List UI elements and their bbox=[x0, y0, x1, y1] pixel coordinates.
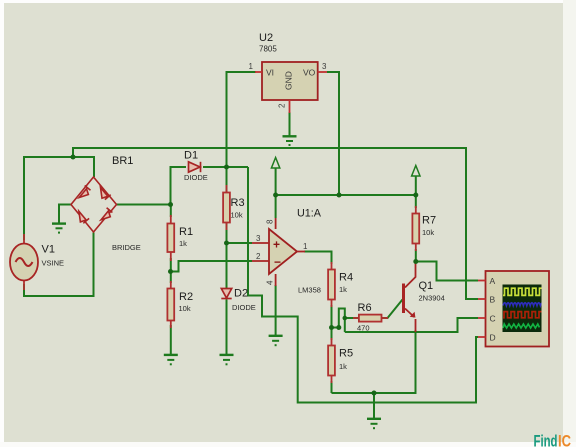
wire R2 leads bbox=[170, 272, 172, 355]
svg-text:1k: 1k bbox=[179, 239, 187, 248]
wire op-amp pin4 to ground bbox=[275, 285, 277, 336]
svg-text:C: C bbox=[490, 314, 496, 324]
svg-text:Q1: Q1 bbox=[419, 280, 434, 292]
diode D2 bbox=[221, 289, 231, 299]
ground (bridge) bbox=[52, 224, 66, 233]
resistor R7 bbox=[412, 206, 419, 251]
wire power arrow stem R7 bbox=[415, 176, 417, 195]
svg-text:R2: R2 bbox=[179, 291, 193, 303]
svg-text:R5: R5 bbox=[339, 348, 353, 360]
svg-text:4: 4 bbox=[266, 280, 275, 285]
node +5V op-amp bbox=[273, 193, 278, 198]
svg-text:VSINE: VSINE bbox=[42, 259, 65, 268]
svg-text:DIODE: DIODE bbox=[232, 303, 256, 312]
svg-text:LM358: LM358 bbox=[298, 286, 321, 295]
node V1/rail bbox=[71, 155, 76, 160]
wire op-amp pin3 bbox=[227, 242, 253, 244]
resistor R5 bbox=[328, 338, 335, 383]
svg-text:2: 2 bbox=[278, 103, 287, 108]
node R3/D2/pin3 bbox=[224, 241, 229, 246]
node +5V R7 bbox=[413, 193, 418, 198]
source V1 bbox=[10, 234, 38, 290]
power arrow (R7 supply) bbox=[412, 166, 420, 177]
svg-text:R4: R4 bbox=[339, 272, 353, 284]
node collector bbox=[413, 259, 418, 264]
svg-text:R6: R6 bbox=[358, 302, 372, 314]
transistor Q1 bbox=[402, 262, 416, 333]
svg-text:VO: VO bbox=[303, 68, 316, 78]
svg-text:D1: D1 bbox=[184, 150, 198, 162]
svg-text:10k: 10k bbox=[179, 304, 191, 313]
wire power arrow stem U1 bbox=[275, 166, 277, 195]
svg-text:2: 2 bbox=[256, 252, 261, 261]
wire op-amp pin2 from divider bbox=[171, 261, 253, 272]
wire D1 cathode to junction bbox=[203, 166, 248, 168]
svg-text:7805: 7805 bbox=[259, 45, 277, 54]
wire 7805 VI vertical bbox=[227, 72, 257, 193]
wire 7805 VO drop bbox=[327, 72, 339, 195]
svg-text:R7: R7 bbox=[422, 215, 436, 227]
svg-text:BR1: BR1 bbox=[112, 155, 133, 167]
wire D1 anode riser bbox=[171, 167, 187, 205]
power arrow (U1 supply) bbox=[271, 158, 279, 169]
svg-text:1k: 1k bbox=[339, 285, 347, 294]
wire +5V rail bbox=[276, 194, 416, 196]
wire 7805 GND pin bbox=[289, 112, 291, 136]
wire R3 bottom to D2 and ground bbox=[226, 223, 228, 355]
ground (R2) bbox=[164, 355, 178, 364]
wire jog up + top rail + drop to scope B bbox=[73, 148, 478, 299]
node R6 lead bbox=[343, 316, 348, 321]
scope screen bbox=[503, 285, 542, 333]
svg-text:VI: VI bbox=[266, 68, 274, 78]
svg-text:10k: 10k bbox=[422, 228, 434, 237]
wire bridge right output bbox=[117, 204, 171, 206]
resistor R4 bbox=[328, 262, 335, 307]
svg-text:D: D bbox=[490, 333, 496, 343]
svg-text:8: 8 bbox=[266, 219, 275, 224]
wire R7 bottom to collector node bbox=[415, 249, 417, 262]
svg-text:1: 1 bbox=[303, 242, 308, 251]
wire V1 bottom loop to bridge bottom bbox=[24, 233, 94, 297]
svg-text:B: B bbox=[490, 295, 496, 305]
resistor R6 bbox=[353, 315, 388, 322]
svg-text:DIODE: DIODE bbox=[184, 173, 208, 182]
svg-text:+: + bbox=[273, 238, 280, 252]
svg-text:A: A bbox=[490, 276, 496, 286]
svg-text:3: 3 bbox=[256, 234, 261, 243]
wire op-amp output to R4 bbox=[304, 252, 332, 265]
ground (7805) bbox=[283, 136, 297, 145]
wire R5 leads bbox=[331, 328, 333, 394]
node divider R1/R2 bbox=[168, 269, 173, 274]
wire bridge left to ground bbox=[59, 205, 71, 224]
svg-text:10k: 10k bbox=[231, 211, 243, 220]
node ground rail bbox=[372, 391, 377, 396]
svg-text:U2: U2 bbox=[259, 32, 273, 44]
svg-text:U1:A: U1:A bbox=[297, 208, 322, 220]
node +5V VO bbox=[337, 193, 342, 198]
svg-text:V1: V1 bbox=[42, 244, 55, 256]
diode D1 bbox=[189, 162, 201, 172]
wire to scope C bbox=[345, 318, 478, 332]
oscilloscope bbox=[478, 271, 549, 347]
resistor R3 bbox=[223, 185, 230, 230]
node D1 cathode bbox=[224, 165, 229, 170]
ground (D2) bbox=[220, 355, 234, 364]
node bridge output bbox=[168, 202, 173, 207]
wire R6 to Q1 base bbox=[382, 300, 403, 319]
ground (op-amp pin4) bbox=[269, 336, 283, 345]
svg-text:470: 470 bbox=[357, 324, 370, 333]
svg-text:−: − bbox=[274, 255, 281, 269]
svg-text:Find: Find bbox=[534, 433, 558, 447]
wire R7 top lead bbox=[415, 195, 417, 208]
svg-text:IC: IC bbox=[558, 433, 571, 447]
wire staircase D1 node to scope D bbox=[248, 167, 478, 403]
node jog bbox=[336, 325, 341, 330]
svg-text:1: 1 bbox=[249, 62, 254, 71]
resistor R2 bbox=[167, 281, 174, 328]
wire collector node to scope A bbox=[416, 262, 478, 281]
op-amp U1:A bbox=[252, 218, 308, 286]
resistor R1 bbox=[167, 215, 174, 261]
wire ground stub at emitter rail bbox=[373, 393, 375, 419]
wire op-amp pin8 bbox=[275, 195, 277, 218]
svg-text:3: 3 bbox=[322, 62, 327, 71]
wire emitter to ground rail bbox=[332, 330, 416, 393]
wire R4 bottom to node bbox=[331, 305, 333, 328]
svg-text:1k: 1k bbox=[339, 362, 347, 371]
ground (emitter rail) bbox=[367, 419, 381, 428]
svg-text:2N3904: 2N3904 bbox=[419, 294, 445, 303]
svg-text:R1: R1 bbox=[179, 226, 193, 238]
wire R1 leads bbox=[170, 205, 172, 272]
regulator U2 7805 bbox=[249, 62, 327, 113]
svg-text:BRIDGE: BRIDGE bbox=[112, 243, 141, 252]
wire V1 top to bridge top bbox=[24, 157, 94, 240]
bridge rectifier BR1 bbox=[71, 177, 117, 232]
svg-text:GND: GND bbox=[284, 71, 294, 90]
svg-text:R3: R3 bbox=[231, 197, 245, 209]
svg-text:D2: D2 bbox=[234, 288, 248, 300]
wire node jog to R6 bbox=[332, 309, 359, 333]
node R4/R5 bbox=[329, 325, 334, 330]
